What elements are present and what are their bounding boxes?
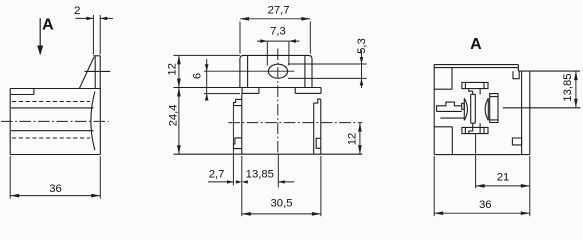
svg-text:A: A bbox=[42, 17, 54, 34]
dim line bbox=[10, 195, 100, 197]
right top clip bbox=[513, 71, 519, 79]
ext line left bbox=[92, 15, 94, 55]
ext body right bbox=[320, 156, 322, 216]
body bottom edge bbox=[10, 154, 100, 156]
right inner wall bbox=[521, 71, 523, 155]
bore top edge bbox=[11, 107, 94, 109]
oval mounting hole bbox=[268, 64, 287, 78]
svg-text:13,85: 13,85 bbox=[246, 168, 274, 180]
dim line chain bbox=[178, 55, 180, 154]
top edge bbox=[434, 64, 518, 66]
ext left bbox=[433, 156, 435, 216]
concave arc on right face bbox=[91, 92, 95, 151]
body right edge bbox=[99, 89, 101, 155]
ext hole bottom bbox=[288, 77, 367, 79]
tab top cap bbox=[93, 55, 100, 57]
ext left bbox=[239, 22, 241, 54]
right D-curve bbox=[485, 98, 488, 120]
arm end cap bbox=[462, 103, 465, 109]
right rail outer bbox=[320, 99, 322, 154]
svg-text:27,7: 27,7 bbox=[268, 5, 290, 17]
ext line right bbox=[99, 156, 101, 198]
right blade terminal bbox=[490, 94, 498, 123]
right bottom clip bbox=[512, 138, 521, 145]
top right shoulder (extended right) bbox=[518, 70, 580, 72]
svg-text:12: 12 bbox=[167, 63, 179, 76]
hidden line upper bbox=[12, 101, 90, 103]
body bottom line (extended) bbox=[174, 153, 363, 155]
tab diagonal edge bbox=[79, 57, 94, 89]
right D chord bbox=[487, 98, 489, 120]
svg-text:2: 2 bbox=[74, 5, 80, 17]
ext right bbox=[309, 22, 311, 54]
top right step bbox=[517, 65, 519, 72]
top-right hook step bbox=[314, 99, 321, 103]
svg-text:6: 6 bbox=[192, 73, 204, 79]
hidden line lower bbox=[12, 137, 90, 139]
vertical center line bbox=[277, 49, 279, 155]
left edge main bbox=[241, 93, 243, 154]
ext right bbox=[529, 156, 531, 216]
tab latch tick bbox=[85, 70, 111, 72]
bottom-right hook notch bbox=[316, 138, 321, 148]
body left edge bbox=[9, 89, 11, 155]
hole horizontal center line bbox=[204, 70, 294, 72]
left D chord bbox=[463, 98, 465, 120]
floor line bbox=[440, 117, 464, 119]
right ear bar bbox=[294, 88, 296, 94]
svg-text:12: 12 bbox=[347, 133, 359, 146]
right outer edge bbox=[529, 71, 531, 155]
ext line for 6 bbox=[204, 93, 240, 95]
right edge inner bbox=[313, 103, 315, 154]
bracket inner wall right bbox=[304, 56, 306, 88]
svg-text:21: 21 bbox=[497, 172, 510, 184]
upper-left pocket bbox=[451, 68, 453, 90]
svg-text:24,4: 24,4 bbox=[168, 104, 180, 126]
left D-curve bbox=[464, 98, 467, 120]
horizontal center line bbox=[228, 122, 362, 124]
svg-text:36: 36 bbox=[479, 199, 492, 211]
ext line pattern center bbox=[475, 134, 477, 189]
svg-text:A: A bbox=[470, 36, 482, 53]
terminal axis line (extended right) bbox=[503, 107, 581, 109]
svg-text:7,3: 7,3 bbox=[270, 25, 286, 37]
bracket bottom line (extended) bbox=[174, 87, 322, 89]
ext line left bbox=[9, 156, 11, 198]
right ear end cap bbox=[320, 88, 322, 94]
center ext line below body bbox=[277, 154, 279, 187]
left outer edge bbox=[433, 65, 435, 155]
ext right bbox=[288, 42, 290, 66]
ext hole top bbox=[288, 63, 367, 65]
left rail outer / ext line bbox=[232, 106, 234, 186]
svg-text:30,5: 30,5 bbox=[271, 198, 293, 210]
top blade terminal bbox=[462, 82, 488, 88]
svg-text:13,85: 13,85 bbox=[562, 73, 574, 101]
center line bbox=[1, 120, 109, 122]
ext left bbox=[266, 42, 268, 66]
center slot bbox=[470, 94, 472, 123]
plate step vertical bbox=[33, 89, 35, 95]
left ear bar bbox=[241, 88, 243, 94]
svg-text:36: 36 bbox=[49, 183, 62, 195]
bracket plate bottom edge bbox=[10, 94, 34, 96]
lower-left pocket bbox=[451, 127, 453, 155]
bottom-left hook bbox=[234, 138, 242, 149]
ext bracket top bbox=[174, 54, 240, 56]
svg-text:5,3: 5,3 bbox=[356, 38, 368, 54]
bottom edge bbox=[434, 154, 530, 156]
dimension 13,85 (view A) bbox=[575, 71, 577, 108]
dimension 12 (right) bbox=[359, 123, 361, 155]
tab left edge bbox=[94, 56, 96, 89]
top edge second line bbox=[434, 67, 518, 69]
bracket inner wall left bbox=[247, 56, 249, 88]
left arm terminal bbox=[437, 102, 462, 111]
bore bottom edge bbox=[11, 130, 94, 132]
dim line 30,5 bbox=[242, 213, 321, 215]
ext body left bbox=[241, 156, 243, 216]
body top edge bbox=[10, 88, 100, 90]
bottom blade terminal bbox=[462, 127, 488, 133]
svg-text:2,7: 2,7 bbox=[209, 168, 225, 180]
top-left hook bbox=[234, 99, 242, 105]
view direction arrow A bbox=[39, 18, 41, 49]
bracket outline bbox=[240, 55, 312, 87]
tab right edge bbox=[99, 56, 101, 89]
ext line right bbox=[99, 15, 101, 55]
